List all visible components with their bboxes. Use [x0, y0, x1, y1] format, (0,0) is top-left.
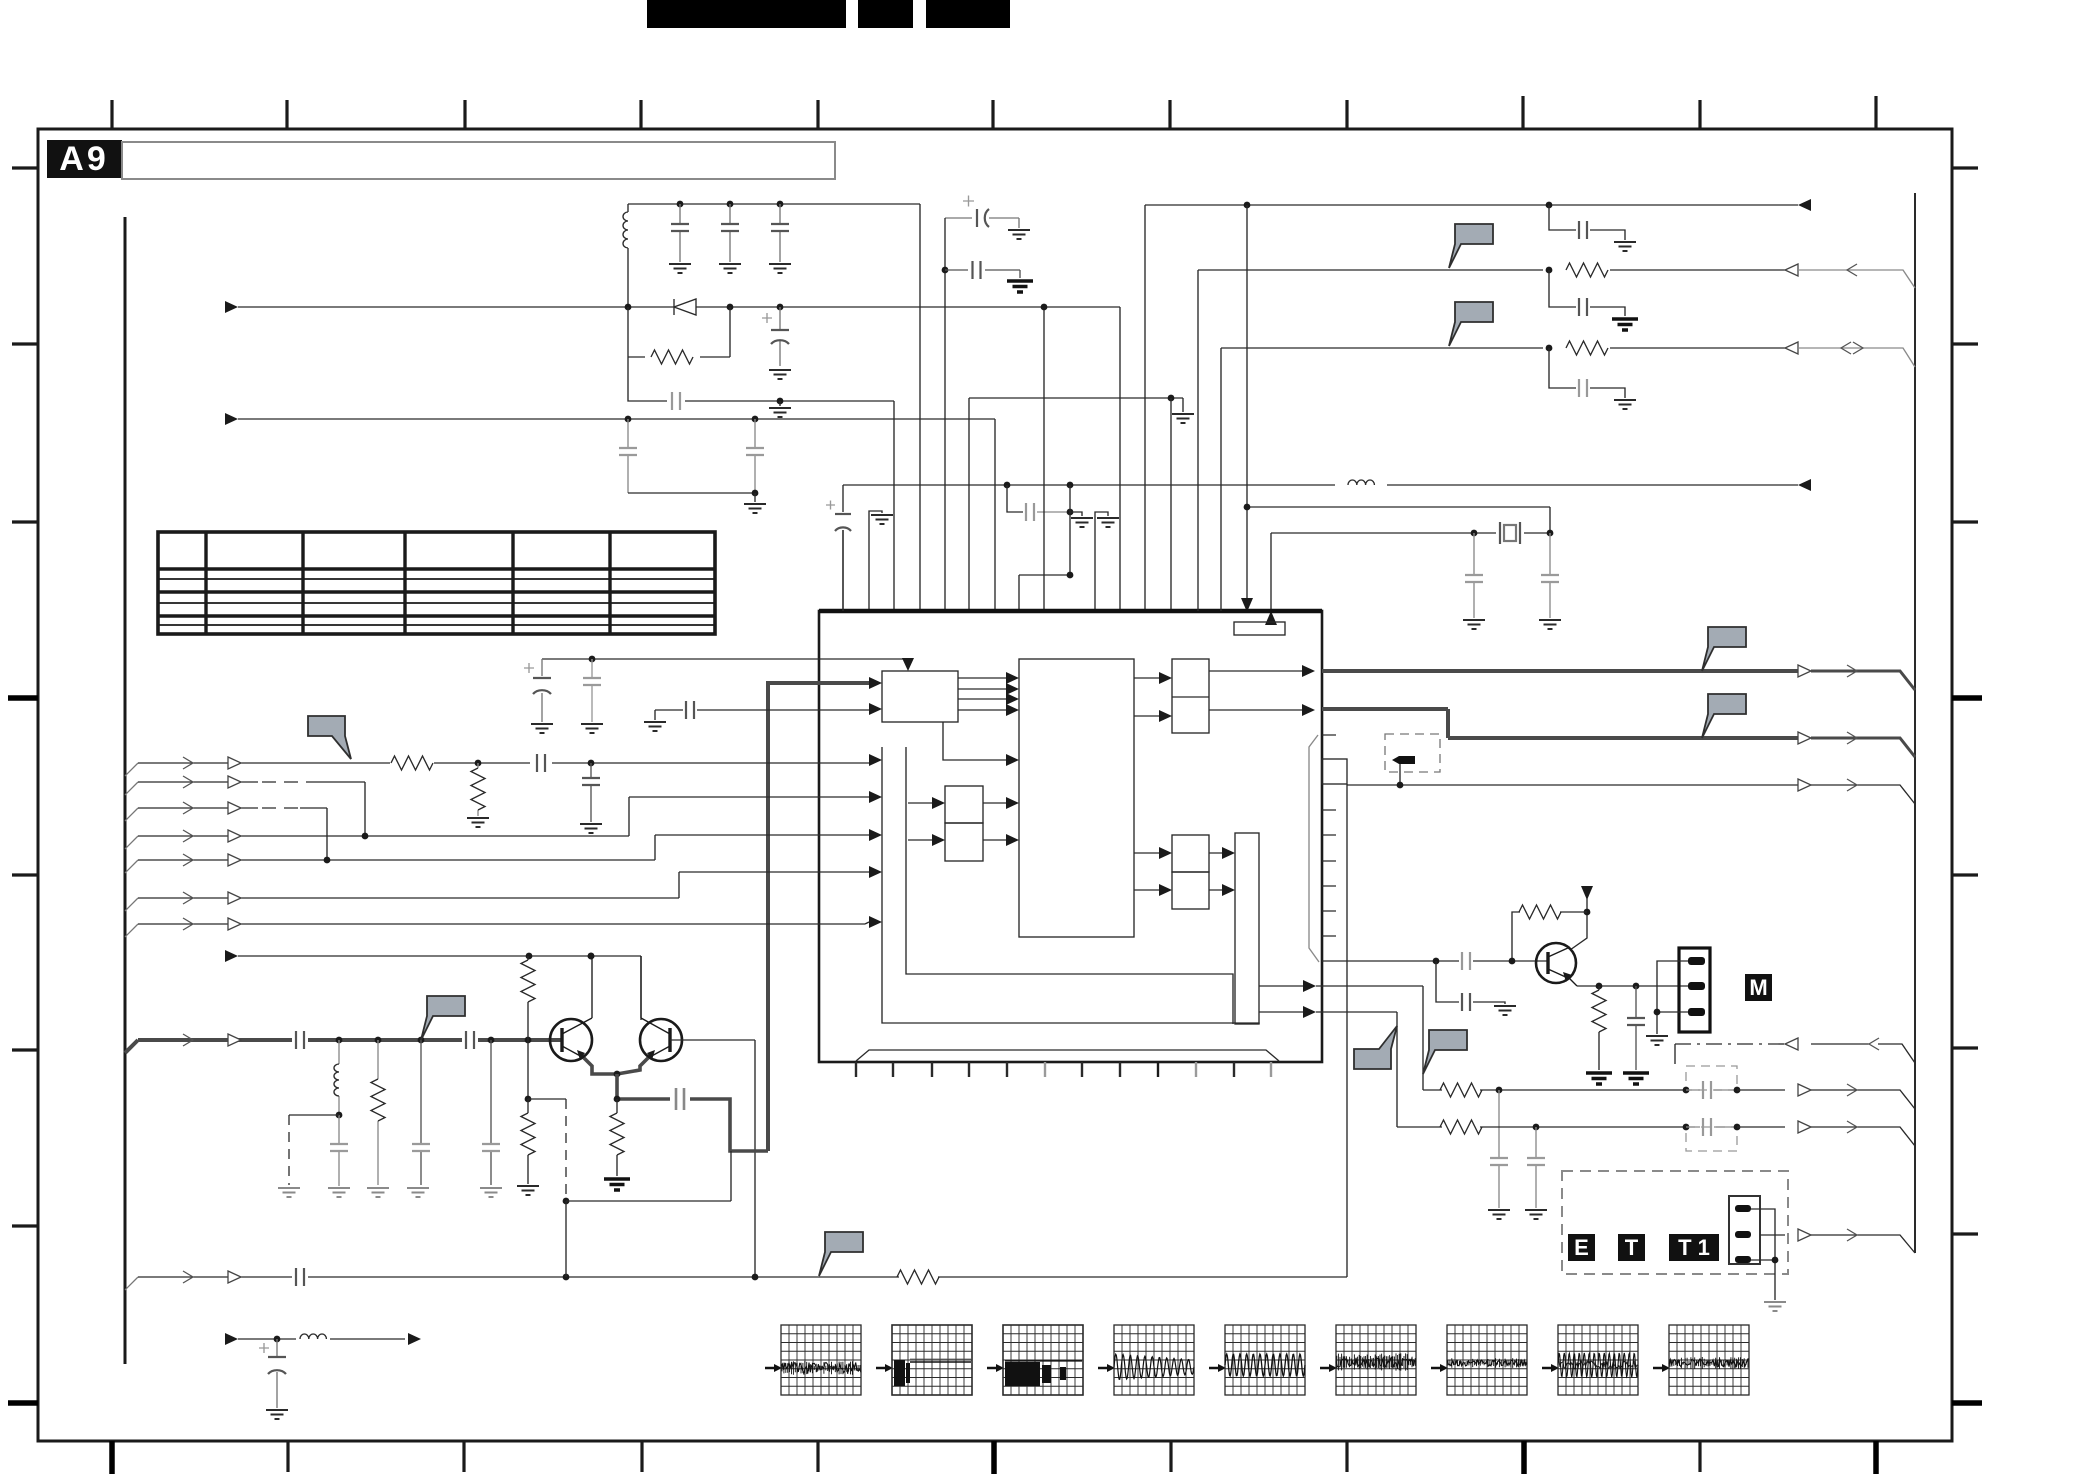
connector J2 (3-pin) — [1729, 1196, 1760, 1264]
U-channel bus inner rail — [906, 747, 1233, 1024]
node: jog junction — [1067, 572, 1074, 579]
resistor R1 — [651, 350, 693, 364]
callout flag 3 — [1702, 627, 1746, 671]
node: junction 1499,1090 — [1496, 1087, 1503, 1094]
capacitor C10 (electrolytic series) — [826, 501, 851, 532]
wire: filter bottom link y493 — [628, 492, 755, 494]
svg-text:M: M — [1749, 975, 1767, 1000]
node: row7 junction 529 — [526, 953, 533, 960]
node: row0 junction 478 — [475, 760, 482, 767]
IC bottom pin stubs — [856, 1062, 1271, 1077]
resistor R11 — [1440, 1083, 1482, 1097]
U-channel input arrows — [869, 754, 882, 766]
node: audio junction 339 — [336, 1037, 343, 1044]
capacitor C20 (series in audio bus) — [466, 1031, 474, 1049]
node: 1737,1127 — [1734, 1124, 1741, 1131]
node: IF bus junction 628 — [625, 416, 632, 423]
node: junction 277,1339 — [274, 1336, 281, 1343]
bus stub row1 — [125, 782, 138, 795]
title bar block 2 (redacted) — [858, 0, 913, 28]
node: junction 1587,912 — [1584, 909, 1591, 916]
thick chroma bus 1 y671 — [1322, 669, 1798, 673]
connector J1 (3-pin) — [1679, 948, 1710, 1032]
ground under C18 — [580, 824, 602, 833]
entry arrow deflection line — [225, 1333, 238, 1345]
capacitor C21 (shunt) — [330, 1115, 348, 1186]
pin arrow out of IC (up) — [1265, 611, 1277, 625]
ground at 1183 — [1172, 414, 1194, 423]
bus stub row3 — [125, 836, 138, 849]
oscillogram 4 — [1098, 1325, 1194, 1395]
capacitor C31 (series) — [1686, 1081, 1737, 1099]
branch: C35 to ground — [1436, 961, 1505, 1004]
node: junction on coupling line — [777, 398, 784, 405]
wire: vertical 1070 and jog to pin 1019 — [1019, 485, 1070, 611]
IC right-edge connector bevel — [1309, 735, 1319, 962]
capacitor C6 — [619, 419, 637, 493]
label E (black box) — [1568, 1234, 1595, 1261]
ground under dashed branch — [278, 1188, 300, 1197]
node: junction 1549,270 — [1546, 267, 1553, 274]
wire: rail right leg down to IC pin — [919, 204, 921, 611]
node: junction 617,1099 — [614, 1096, 621, 1103]
signal entry arrow: IF input bus — [225, 413, 238, 425]
capacitor C16 (series) — [686, 701, 694, 719]
wire: vref line y659 — [542, 659, 908, 668]
resistor R2 in row0 — [390, 754, 434, 772]
wire: sandcastle line y785 — [1347, 784, 1798, 786]
node: IF bus junction 755 — [752, 416, 759, 423]
wire: crystal feed x1247 — [1247, 205, 1550, 612]
sub-block E (output stage top) — [1172, 659, 1209, 733]
node: junction 1070,512 — [1067, 509, 1074, 516]
RC drop from y270 — [1549, 270, 1625, 316]
capacitor C13 — [1541, 533, 1559, 618]
arrow into block A in2 — [869, 703, 882, 715]
bus stub row6 — [125, 924, 138, 937]
ground under C15 — [581, 724, 603, 733]
dashed cap box 2 — [1686, 1127, 1737, 1151]
node: junction 1044 on AGC bus — [1041, 304, 1048, 311]
callout flag 4 — [1702, 694, 1746, 738]
wire: stub line y398 right of pin969 — [969, 398, 1183, 611]
wire: link 566 to thick corner — [566, 1151, 731, 1201]
ground at 755 — [744, 493, 766, 513]
ground under C13 — [1539, 620, 1561, 629]
ground under C27 — [1614, 242, 1636, 251]
grey continuation y270 — [1798, 270, 1915, 288]
capacitor C11 (series, grey) — [1026, 503, 1034, 521]
node: audio junction 378 — [375, 1037, 382, 1044]
node: row7 junction 591 — [588, 953, 595, 960]
resistor R3 (shunt) — [471, 763, 485, 816]
node: audio junction 528 — [525, 1037, 532, 1044]
oscillogram 5 — [1209, 1325, 1305, 1395]
capacitor C9 — [945, 261, 1020, 279]
oscillogram 7 — [1431, 1325, 1527, 1395]
capacitor C32 (shunt) — [1527, 1127, 1545, 1208]
node: junction 1599,986 — [1596, 983, 1603, 990]
ground under R4 — [367, 1188, 389, 1197]
node: rail junction 3 — [777, 201, 784, 208]
IC right-edge ticks — [1322, 735, 1336, 936]
node: junction 528,1099 — [525, 1096, 532, 1103]
wire row1 (dashed option) — [138, 782, 365, 836]
IC bottom bevel strip — [856, 1050, 1279, 1061]
wire to bus y1127 — [1737, 1126, 1785, 1128]
node: junction 755,1277 — [752, 1274, 759, 1281]
node: junction at 945,270 — [942, 267, 949, 274]
inductor L4 — [300, 1334, 326, 1339]
ground under C22 — [407, 1188, 429, 1197]
bus stub row5 — [125, 898, 138, 911]
wire row7 (transistor feed) — [238, 956, 641, 1020]
capacitor C17 (series in row0) — [530, 752, 552, 774]
capacitor C25 (series) — [296, 1268, 304, 1286]
wires F,G to bar H — [1209, 853, 1222, 890]
diode D1 — [674, 299, 696, 315]
pin arrow into IC (down) — [1241, 598, 1253, 612]
capacitor C33 (series) — [1686, 1118, 1737, 1136]
wire: drop to resistor R1 — [628, 307, 730, 357]
node: Q1 collector to row7 — [588, 953, 595, 960]
resistor R8 (in bottom wire) — [897, 1270, 939, 1284]
ground under C4 — [769, 370, 791, 379]
node: 1737,1090 — [1734, 1087, 1741, 1094]
sub-block C — [945, 786, 983, 823]
node: 1686,1127 — [1683, 1124, 1690, 1131]
capacitor C14 (electrolytic) — [524, 663, 551, 694]
grey continuation y348 — [1798, 348, 1915, 367]
node: diode anode junction — [625, 304, 632, 311]
wire: top bus y205 — [1145, 205, 1798, 611]
wire: deflection line y1339 — [238, 1338, 405, 1340]
inductor L3 (shunt) — [334, 1040, 339, 1115]
dashed module box E/T/T1 — [1562, 1171, 1788, 1274]
open arrow input y348 — [1785, 342, 1798, 354]
capacitor C4 (electrolytic) — [762, 307, 789, 366]
wire row5 — [138, 872, 869, 898]
capacitor C5 (series) — [672, 392, 680, 410]
node: junction 1400,785 — [1397, 782, 1404, 789]
resistor R6 (to ground) — [521, 1099, 535, 1184]
wire: AGC bus y307 — [238, 307, 1120, 611]
node: junction 1657,1012 — [1654, 1009, 1661, 1016]
node: 1686,1090 — [1683, 1087, 1690, 1094]
node: junction 1775,1260 — [1772, 1257, 1779, 1264]
resistor R4 (shunt) — [371, 1040, 385, 1185]
wires B to F,G — [1134, 853, 1159, 890]
capacitor C12 — [1465, 533, 1483, 618]
thin feedback: 528 to dashed 566 — [528, 1098, 566, 1100]
bus stub row4 — [125, 860, 138, 873]
ground under C8 — [1008, 230, 1030, 239]
dashed vertical 566 — [565, 1099, 567, 1201]
callout flag 5 — [308, 716, 351, 759]
wire into block A in2 — [655, 709, 869, 711]
IC edge option box — [1322, 759, 1347, 784]
callout flag 9 — [1423, 1030, 1467, 1074]
inductor L2 in VCC line — [1348, 480, 1374, 485]
node: VCC junction 1070 — [1067, 482, 1074, 489]
wires: J1 pins 1,3 to ground — [1657, 961, 1688, 1034]
wires: J2 pins 1,3 join — [1751, 1209, 1775, 1300]
svg-text:T 1: T 1 — [1678, 1235, 1710, 1260]
node: junction 1436,961 — [1433, 958, 1440, 965]
ground stub for C16 — [644, 710, 666, 731]
label M (black box) — [1745, 974, 1772, 1001]
exit arrow top bus (filled, pointing left) — [1798, 199, 1811, 211]
capacitor C35 (series) — [1462, 993, 1470, 1011]
oscillogram 1 — [765, 1325, 861, 1395]
wire row3 — [138, 797, 869, 836]
arrow into block A top — [902, 658, 914, 671]
title outline bar — [122, 142, 835, 179]
sub-block F — [1172, 835, 1209, 872]
capacitor C3 — [771, 204, 789, 262]
IC U1 main outline — [819, 611, 1322, 1062]
node: rail junction 1 — [677, 201, 684, 208]
resistor R12 — [1440, 1120, 1482, 1134]
parts table — [158, 532, 715, 634]
oscillogram 8 — [1542, 1325, 1638, 1395]
wire row6 — [138, 922, 869, 924]
node: junction at 755,493 — [752, 490, 759, 497]
resistor R9 — [1566, 263, 1608, 277]
exit arrow deflection — [408, 1333, 421, 1345]
dashed cap box 1 — [1686, 1066, 1737, 1090]
ground for J1 — [1646, 1036, 1668, 1045]
node: junction 1636,986 — [1633, 983, 1640, 990]
ground under R6 — [517, 1186, 539, 1195]
capacitor C15 — [583, 659, 601, 722]
resistor R7 (emitter load) — [610, 1099, 624, 1176]
svg-text:T: T — [1625, 1235, 1639, 1260]
dash-dot return line y1044 — [1675, 1044, 1915, 1064]
sub-block G — [1172, 872, 1209, 909]
callout flag 2 — [1449, 302, 1493, 346]
wire: J2 pin2 output y1235 — [1760, 1234, 1785, 1236]
ground under C9 (bold) — [1007, 281, 1033, 292]
thick wire to coupling cap C24 — [617, 1074, 768, 1151]
capacitor C30 (shunt) — [1490, 1090, 1508, 1208]
capacitor C26 (electrolytic shunt) — [259, 1339, 286, 1408]
wire: dashed continues to bottom bus — [565, 1201, 567, 1277]
wire: VCC drop to electrolytic C10 and IC pin — [842, 485, 844, 611]
svg-text:A9: A9 — [59, 140, 108, 178]
callout flag 8 (tail up) — [1354, 1026, 1397, 1069]
oscillogram 9 — [1653, 1325, 1749, 1395]
wire: pin 1044 up to AGC bus — [1043, 307, 1045, 611]
bus stub row0 — [125, 763, 138, 776]
wire: coupling line y401 — [628, 307, 894, 611]
ground under C14 — [531, 724, 553, 733]
wires into C and D — [908, 803, 932, 840]
wire: crystal line y533 — [1271, 533, 1550, 612]
wire: Q3 emitter out — [1577, 985, 1688, 987]
node: row2 joins row4 — [324, 857, 331, 864]
ground under C26 — [266, 1410, 288, 1419]
ground under R7 (bold) — [604, 1179, 630, 1190]
node: junction 1512,961 — [1509, 958, 1516, 965]
capacitor C29 (grey) — [1579, 379, 1587, 397]
node: junction 339,1115 — [336, 1112, 343, 1119]
thick emitter join path — [584, 1058, 648, 1074]
ground under C21 — [328, 1188, 350, 1197]
capacitor C2 — [721, 204, 739, 262]
wire: top rail of tuner filter — [628, 203, 920, 205]
wire: vref left leg to C14 — [541, 659, 543, 722]
ground under C32 — [1525, 1210, 1547, 1219]
wire: RGB line 1 y1090 — [1423, 1089, 1686, 1091]
capacitor C19 (series in audio bus) — [296, 1031, 304, 1049]
wire row4 — [138, 835, 869, 860]
callout flag 7 — [819, 1232, 863, 1276]
clock box inside IC — [1234, 622, 1285, 635]
open arrow input y270 — [1785, 264, 1798, 276]
wire: RGB line 2 y1127 — [1397, 1126, 1686, 1128]
node: bus junction at 730 — [727, 304, 734, 311]
callout flag 1 — [1449, 224, 1493, 268]
ground under C3 — [769, 264, 791, 273]
wire: VCC line y485 — [843, 484, 1798, 486]
crystal X1 — [1500, 522, 1520, 544]
node: junction 1536,1127 — [1533, 1124, 1540, 1131]
resistor R5 (row7 to bus) — [521, 956, 535, 1040]
oscillogram 3 — [987, 1325, 1083, 1395]
E outputs to IC edge — [1209, 671, 1302, 710]
bottom long wire y1277 — [138, 784, 1347, 1277]
wire: Q3 base line y961 — [1322, 960, 1548, 962]
wire: input row y348 — [1221, 348, 1785, 611]
wire: block A bottom tap to B — [943, 722, 1006, 760]
ground under C2 — [719, 264, 741, 273]
oscillogram 2 — [876, 1325, 972, 1395]
resistor R13 (feedback) — [1512, 905, 1587, 961]
ground under C30 — [1488, 1210, 1510, 1219]
wire 528 down — [527, 1040, 529, 1099]
wire: IF bus y419 — [238, 419, 995, 611]
entry arrow row7 — [225, 950, 238, 962]
resistor R14 (emitter) — [1592, 986, 1606, 1070]
sub-block D — [945, 823, 983, 861]
wire: supply leg x945 — [944, 218, 946, 611]
transistor Q3 — [1536, 943, 1577, 986]
thick chroma bus 2 y709 — [1322, 709, 1798, 738]
capacitor C1 — [671, 204, 689, 262]
wire: drop 1007 to cap row — [1007, 485, 1023, 512]
callout flag 6 — [421, 996, 465, 1040]
wire: collector feed — [1570, 898, 1587, 950]
supply arrow into Q3 collector — [1581, 886, 1593, 900]
ground stub right of 1070 — [1070, 512, 1093, 527]
oscillogram 6 — [1320, 1325, 1416, 1395]
node: junction at 1171 — [1168, 395, 1175, 402]
ground under C1 — [669, 264, 691, 273]
main DSP block B — [1019, 659, 1134, 937]
wires B to E — [1134, 678, 1159, 716]
capacitor C7 — [746, 419, 764, 493]
arrow into block A in1 — [869, 677, 882, 689]
ground stub pin 869 — [869, 511, 893, 611]
bus stub row2 — [125, 808, 138, 821]
ground stub at 780 — [769, 401, 791, 417]
thick bus entry bevel — [125, 1040, 138, 1053]
ground under C12 — [1463, 620, 1485, 629]
node: audio junction 491 — [488, 1037, 495, 1044]
exit arrow VCC (filled, pointing left) — [1798, 479, 1811, 491]
bus bar H — [1235, 833, 1259, 1024]
U-channel outputs to right — [1259, 986, 1423, 1127]
thick audio bus y1040 — [138, 1038, 562, 1042]
svg-text:E: E — [1574, 1235, 1589, 1260]
capacitor C34 (series grey) — [1462, 952, 1470, 970]
ground under R3 — [467, 818, 489, 827]
node: corner 1247,507 — [1244, 504, 1251, 511]
capacitor C36 (shunt) — [1627, 986, 1645, 1070]
capacitor C24 (series, thick path) — [676, 1088, 684, 1110]
node: emitter junction — [614, 1071, 621, 1078]
node: junction 1247 on top bus — [1244, 202, 1251, 209]
ground under C29 — [1614, 400, 1636, 409]
capacitor C22 (shunt) — [412, 1040, 430, 1185]
ground under C36 (bold) — [1623, 1073, 1649, 1084]
node: vref junction 592 — [589, 656, 596, 663]
label T1 (black box) — [1669, 1234, 1719, 1261]
title bar block 3 (redacted) — [926, 0, 1010, 28]
RC drop from y348 — [1549, 348, 1625, 398]
node: VCC junction 1007 — [1004, 482, 1011, 489]
wire: cap to node 1070 — [1037, 511, 1070, 513]
capacitor C28 — [1579, 298, 1587, 316]
title bar block 1 (redacted) — [647, 0, 846, 28]
wire row0 (video in) — [138, 762, 869, 764]
right collector bus (vertical) — [1914, 193, 1916, 1253]
node: row1 joins row3 — [362, 833, 369, 840]
wire row2 (dashed option) — [138, 808, 327, 860]
capacitor C18 (shunt) — [582, 763, 600, 822]
A9 sheet label — [47, 140, 122, 178]
block A outputs to block B — [958, 678, 1006, 710]
wires C,D to B — [983, 803, 1006, 840]
inductor L1 (vertical coil) — [623, 204, 628, 307]
U-channel bus outer rail — [882, 747, 1259, 1024]
wire: Q2 base to bottom bus — [670, 1040, 755, 1277]
thick audio wire into block A — [768, 683, 869, 1151]
left entry bus (vertical) — [124, 217, 127, 1364]
transistor Q1 — [550, 956, 592, 1061]
capacitor C27 — [1579, 221, 1587, 239]
ground under C28 (bold) — [1612, 319, 1638, 330]
ground after C35 — [1494, 1006, 1516, 1015]
node: audio junction 421 — [418, 1037, 425, 1044]
capacitor C23 (shunt) — [482, 1040, 500, 1185]
wire: top input bus RC y230 — [1546, 202, 1625, 240]
dashed branch at 289 — [289, 1115, 339, 1185]
bus stub bottom row — [125, 1277, 138, 1290]
node: junction 566,1201 — [563, 1198, 570, 1205]
wire to bus y1090 — [1737, 1089, 1785, 1091]
node: rail junction 2 — [727, 201, 734, 208]
ground for J2 — [1764, 1302, 1786, 1311]
node: junction 1549,348 — [1546, 345, 1553, 352]
dashed option box with jumper — [1385, 734, 1440, 785]
node: junction 566,1277 — [563, 1274, 570, 1281]
ground stub pin 1095 — [1095, 512, 1119, 611]
ground under C23 — [480, 1188, 502, 1197]
signal entry arrow: AGC line — [225, 301, 238, 313]
node: crystal right — [1547, 530, 1554, 537]
